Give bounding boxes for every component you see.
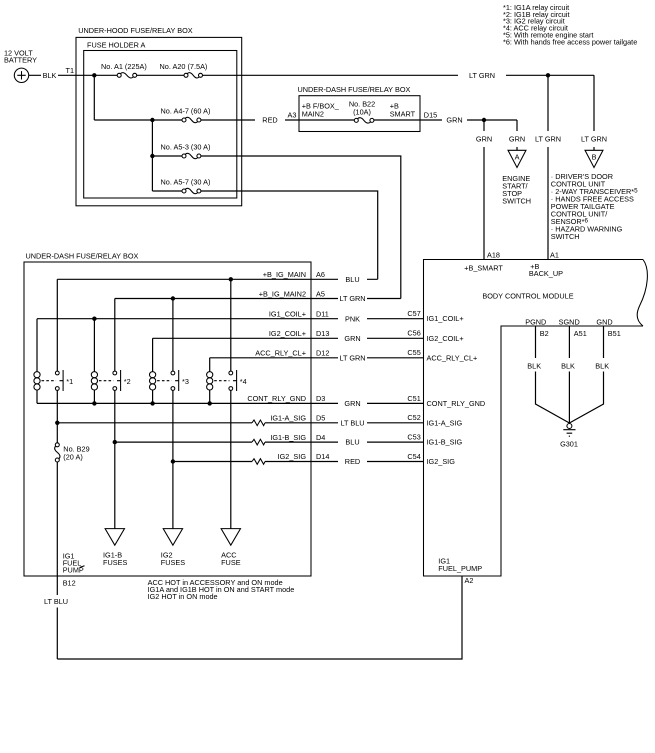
svg-text:D13: D13: [316, 329, 329, 338]
svg-text:No. A5-7 (30 A): No. A5-7 (30 A): [161, 178, 211, 187]
driver's door control unit label: [551, 172, 638, 241]
wire A4-7 to under-dash box (RED): [201, 119, 354, 121]
node T1 junction: [92, 73, 96, 77]
svg-text:BLK: BLK: [527, 361, 541, 370]
wire IG1_COIL+ row (PNK): [37, 318, 424, 320]
label IG1 FUEL PUMP: [63, 551, 85, 574]
svg-text:FUSE: FUSE: [221, 558, 241, 567]
svg-text:CONT_RLY_GND: CONT_RLY_GND: [247, 394, 306, 403]
svg-text:IG2_COIL+: IG2_COIL+: [269, 329, 306, 338]
under-dash fuse/relay box (main): [24, 252, 311, 577]
svg-text:IG1_COIL+: IG1_COIL+: [269, 309, 306, 318]
battery 12V: [4, 49, 37, 83]
svg-text:FUSES: FUSES: [161, 558, 185, 567]
svg-text:GRN: GRN: [446, 116, 462, 125]
svg-text:MAIN2: MAIN2: [302, 110, 324, 119]
svg-text:IG2_SIG: IG2_SIG: [278, 452, 307, 461]
svg-text:UNDER-DASH FUSE/RELAY BOX: UNDER-DASH FUSE/RELAY BOX: [298, 85, 411, 94]
svg-text:A1: A1: [550, 251, 559, 260]
svg-text:*1: *1: [66, 377, 73, 386]
svg-text:SGND: SGND: [559, 318, 580, 327]
wire vertical row2 to row4: [151, 120, 153, 191]
svg-text:IG2_COIL+: IG2_COIL+: [427, 334, 464, 343]
svg-text:A18: A18: [487, 251, 500, 260]
fuse A5-3 (30A): [152, 143, 210, 159]
fuse B22: [354, 118, 374, 123]
svg-text:FUSES: FUSES: [103, 558, 127, 567]
svg-text:D12: D12: [316, 349, 329, 358]
wire BLK PGND: [536, 326, 570, 423]
engine start/stop switch label: [502, 174, 531, 206]
svg-text:B12: B12: [63, 578, 76, 587]
svg-text:No. A20 (7.5A): No. A20 (7.5A): [160, 62, 208, 71]
fuse A4-7 (60A): [161, 107, 211, 123]
svg-text:GRN: GRN: [344, 399, 360, 408]
fuse holder A box: [84, 41, 237, 198]
svg-text:IG1-B_SIG: IG1-B_SIG: [270, 433, 306, 442]
svg-text:GRN: GRN: [509, 135, 525, 144]
svg-text:+B_IG_MAIN2: +B_IG_MAIN2: [259, 289, 306, 298]
arrow ACC FUSE: [221, 529, 241, 567]
wire A5-7 to +B_IG_MAIN (BLU): [201, 191, 378, 279]
svg-text:No. A1 (225A): No. A1 (225A): [101, 62, 147, 71]
node row2/row3 branch: [150, 118, 154, 122]
node relay1 switch out: [55, 421, 59, 425]
svg-text:A3: A3: [287, 111, 296, 120]
svg-text:IG1-B_SIG: IG1-B_SIG: [427, 438, 463, 447]
svg-text:BODY CONTROL MODULE: BODY CONTROL MODULE: [482, 291, 573, 300]
fuse A5-7 (30A): [152, 178, 210, 194]
svg-text:BLK: BLK: [595, 361, 609, 370]
svg-text:B2: B2: [540, 329, 549, 338]
svg-text:LT GRN: LT GRN: [469, 71, 495, 80]
wire relay1 switch to B12: [56, 462, 58, 659]
wire between A1 and A20: [137, 74, 184, 76]
wire IG1-B_SIG row (BLU): [115, 441, 424, 443]
svg-text:+B_IG_MAIN: +B_IG_MAIN: [263, 270, 306, 279]
wire IG2_COIL+ row (GRN): [153, 337, 424, 339]
svg-text:A2: A2: [465, 576, 474, 585]
svg-text:A5: A5: [316, 289, 325, 298]
under-dash fuse/relay box (top, No.B22): [298, 85, 421, 132]
fuse A1 (225A): [101, 62, 147, 78]
svg-text:PNK: PNK: [345, 314, 360, 323]
node relay3 switch out: [171, 459, 175, 463]
svg-text:G301: G301: [560, 439, 578, 448]
svg-text:C54: C54: [407, 452, 420, 461]
wire D15 out (GRN): [374, 119, 517, 121]
svg-text:*3: *3: [182, 377, 189, 386]
relay *3 IG2: [150, 299, 189, 529]
connector B: [585, 150, 603, 167]
connector A: [508, 150, 526, 167]
node relay4 switch: [229, 277, 233, 281]
svg-text:SMART: SMART: [390, 110, 416, 119]
svg-text:C55: C55: [407, 348, 420, 357]
relay *4 ACC: [207, 279, 247, 528]
note ACC/IG1/IG2 hot modes: [148, 578, 295, 601]
wire vertical T1 branch down: [93, 75, 95, 120]
svg-text:*4: *4: [240, 377, 247, 386]
svg-text:SWITCH: SWITCH: [551, 232, 580, 241]
node at A1 branch: [546, 73, 550, 77]
node relay2 switch out: [113, 440, 117, 444]
wire ACC_RLY_CL+ row (LT GRN): [210, 357, 424, 359]
svg-text:A51: A51: [574, 329, 587, 338]
svg-text:(10A): (10A): [353, 108, 371, 117]
node relay3 coil gnd: [150, 401, 154, 405]
resistor IG1-A_SIG: [252, 420, 265, 426]
svg-text:+B_SMART: +B_SMART: [464, 263, 503, 272]
svg-text:UNDER-DASH FUSE/RELAY BOX: UNDER-DASH FUSE/RELAY BOX: [26, 252, 139, 261]
wire battery to fuse box (BLK): [29, 74, 118, 76]
wire LT GRN down to A1: [547, 75, 549, 259]
svg-text:IG2_SIG: IG2_SIG: [427, 457, 456, 466]
svg-text:UNDER-HOOD FUSE/RELAY BOX: UNDER-HOOD FUSE/RELAY BOX: [78, 26, 193, 35]
resistor IG2_SIG: [252, 459, 265, 465]
svg-text:C56: C56: [407, 329, 420, 338]
svg-text:D3: D3: [316, 394, 325, 403]
svg-text:BLU: BLU: [345, 438, 359, 447]
svg-text:LT BLU: LT BLU: [44, 597, 68, 606]
wire IG2_SIG row (RED): [173, 461, 424, 463]
wire +B_IG_MAIN2 row (LT GRN): [115, 298, 401, 300]
under-hood fuse/relay box: [76, 26, 242, 206]
wire fuse A20 to LT GRN run: [203, 74, 595, 76]
wire BLK SGND: [568, 326, 570, 423]
svg-text:D5: D5: [316, 414, 325, 423]
svg-text:IG2 HOT in ON mode: IG2 HOT in ON mode: [148, 592, 218, 601]
svg-text:LT GRN: LT GRN: [339, 294, 365, 303]
svg-text:LT GRN: LT GRN: [535, 135, 561, 144]
svg-text:RED: RED: [262, 116, 277, 125]
fuse A20 (7.5A): [160, 62, 208, 78]
svg-text:D4: D4: [316, 433, 325, 442]
svg-text:C51: C51: [407, 394, 420, 403]
wire CONT_RLY_GND row (GRN): [37, 402, 424, 404]
svg-text:D14: D14: [316, 452, 329, 461]
svg-text:IG1-A_SIG: IG1-A_SIG: [270, 414, 306, 423]
svg-text:FUEL_PUMP: FUEL_PUMP: [438, 564, 482, 573]
wire A5-3 to +B_IG_MAIN2 (LT GRN): [201, 156, 401, 299]
arrow IG1-B FUSES: [103, 529, 127, 567]
svg-text:C52: C52: [407, 413, 420, 422]
node relay2 coil gnd: [92, 401, 96, 405]
svg-text:No. A5-3 (30 A): No. A5-3 (30 A): [161, 143, 211, 152]
svg-text:IG1-A_SIG: IG1-A_SIG: [427, 418, 463, 427]
BCM ground pins PGND SGND GND: [525, 318, 621, 338]
wire +B_IG_MAIN row (BLU): [57, 278, 377, 280]
svg-text:*6: With hands free access pow: *6: With hands free access power tailgat…: [503, 37, 637, 46]
fuse B29 (20A): [55, 443, 90, 462]
resistor IG1-B_SIG: [252, 439, 265, 445]
svg-text:T1: T1: [65, 66, 74, 75]
svg-text:D15: D15: [424, 111, 437, 120]
ground G301: [560, 424, 578, 449]
svg-text:GRN: GRN: [476, 135, 492, 144]
svg-text:LT GRN: LT GRN: [581, 135, 607, 144]
svg-text:BATTERY: BATTERY: [4, 56, 37, 65]
svg-text:D11: D11: [316, 309, 329, 318]
svg-text:RED: RED: [345, 457, 360, 466]
svg-text:SWITCH: SWITCH: [502, 196, 531, 205]
relay *1 IG1A: [34, 279, 73, 443]
svg-text:BLK: BLK: [561, 361, 575, 370]
svg-text:BLK: BLK: [43, 71, 57, 80]
svg-text:ACC_RLY_CL+: ACC_RLY_CL+: [427, 353, 478, 362]
svg-text:No. A4-7 (60 A): No. A4-7 (60 A): [161, 107, 211, 116]
svg-text:GRN: GRN: [344, 334, 360, 343]
svg-text:CONT_RLY_GND: CONT_RLY_GND: [427, 399, 486, 408]
wire BLK GND: [569, 326, 603, 423]
svg-text:(20 A): (20 A): [63, 452, 82, 461]
svg-text:PGND: PGND: [525, 318, 546, 327]
wire B12 to BCM A2: [57, 576, 462, 659]
svg-text:ACC_RLY_CL+: ACC_RLY_CL+: [255, 349, 306, 358]
node row3 branch: [150, 154, 154, 158]
relay *2 IG1B: [91, 299, 130, 529]
node +B_SMART branch: [482, 118, 486, 122]
svg-text:BACK_UP: BACK_UP: [529, 269, 563, 278]
svg-text:LT BLU: LT BLU: [340, 418, 364, 427]
svg-text:GND: GND: [596, 318, 612, 327]
svg-text:C53: C53: [407, 433, 420, 442]
legend notes: [503, 3, 637, 47]
svg-text:FUSE HOLDER A: FUSE HOLDER A: [87, 41, 146, 50]
svg-text:LT GRN: LT GRN: [339, 353, 365, 362]
svg-text:A6: A6: [316, 270, 325, 279]
svg-text:*2: *2: [124, 377, 131, 386]
node relay4 coil gnd: [208, 401, 212, 405]
wire row2 to fuse A4-7: [94, 119, 182, 121]
svg-text:BLU: BLU: [345, 275, 359, 284]
body control module box: [424, 260, 648, 577]
wire GRN down to A18: [483, 120, 485, 260]
wire IG1-A_SIG row (LT BLU): [57, 422, 423, 424]
svg-text:B51: B51: [608, 329, 621, 338]
svg-text:C57: C57: [407, 309, 420, 318]
node relay2 coil: [92, 317, 96, 321]
svg-text:IG1_COIL+: IG1_COIL+: [427, 314, 464, 323]
svg-text:A: A: [515, 152, 520, 161]
wire LT GRN down to connector B: [593, 75, 595, 150]
node relay3 switch: [171, 296, 175, 300]
wire GRN down to connector A: [516, 120, 518, 150]
svg-text:B: B: [592, 152, 597, 161]
arrow IG2 FUSES: [161, 529, 185, 567]
